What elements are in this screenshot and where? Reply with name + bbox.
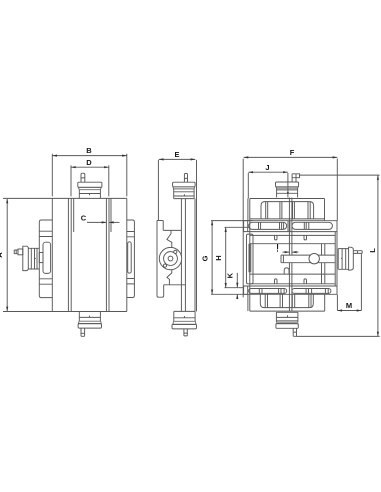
dim F extension lines xyxy=(243,159,337,298)
bottom knob cap xyxy=(172,324,197,329)
right crank bands xyxy=(338,249,348,270)
bottom knob dark band xyxy=(173,321,196,324)
svg-text:H: H xyxy=(214,255,223,260)
svg-text:D: D xyxy=(86,158,92,167)
band1 slot2 dividers xyxy=(304,222,309,229)
middle inner right verticals xyxy=(322,244,325,284)
top section outline xyxy=(250,199,325,312)
top section inner left edge line xyxy=(247,199,249,221)
top knob flange xyxy=(78,187,101,189)
slide short line left xyxy=(73,198,75,232)
bottom knob cap xyxy=(78,324,101,329)
section line above band2 xyxy=(250,283,335,285)
left plate bottom line xyxy=(164,284,186,286)
dim C line left with arrow xyxy=(87,221,106,223)
dim L extension bottom xyxy=(297,335,380,337)
left bracket nut boss xyxy=(39,253,43,263)
dim M right extension xyxy=(360,254,362,311)
band1 left cap divider xyxy=(247,221,249,232)
left bracket inner pocket xyxy=(43,242,51,273)
middle left rounded box xyxy=(247,234,254,284)
svg-text:A: A xyxy=(0,252,4,258)
left plate upper edge xyxy=(157,160,159,221)
top knob stem xyxy=(81,173,85,182)
tabs hanging below line xyxy=(275,235,307,240)
band1 screw crossing xyxy=(288,221,290,232)
svg-text:K: K xyxy=(226,272,235,278)
right cap bracket xyxy=(127,220,135,298)
dim M left extension xyxy=(336,295,338,311)
section line below band1 xyxy=(250,234,335,236)
dim D arrows xyxy=(71,166,109,168)
band2 outline xyxy=(244,286,337,294)
svg-text:B: B xyxy=(86,146,92,155)
handwheel mid circle xyxy=(164,252,178,266)
dim K line outside arrows xyxy=(236,273,238,298)
dim G line xyxy=(211,221,213,295)
bottom knob skirt xyxy=(174,311,195,321)
leadscrew round knob xyxy=(309,254,319,264)
slide vertical lines left pair xyxy=(68,198,71,311)
dim L extension top xyxy=(300,174,380,176)
left plate step xyxy=(157,220,163,222)
plate right edge with break zigzag bottom xyxy=(167,270,172,285)
left plate foot xyxy=(159,285,164,297)
right crank dial disc xyxy=(349,247,354,270)
dim D extension lines xyxy=(71,165,109,196)
dim I line left with arrow xyxy=(283,251,290,253)
tabs rising above line xyxy=(275,279,307,284)
left bracket plate xyxy=(39,220,52,298)
dim A line xyxy=(6,199,8,311)
dim E line xyxy=(159,158,196,160)
dim J right extension through knob xyxy=(287,173,289,198)
handwheel lobe top-right xyxy=(174,250,177,253)
left crank dial disc xyxy=(23,246,29,270)
dim L arrows xyxy=(377,175,379,336)
band2 slot1 dividers xyxy=(259,289,284,294)
arch over screw xyxy=(284,268,289,274)
middle section frame xyxy=(250,244,335,274)
top knob cap xyxy=(276,182,299,187)
top knob flange xyxy=(276,187,299,188)
top knob center mark arrow xyxy=(287,192,289,195)
svg-text:M: M xyxy=(346,301,352,310)
dim I leader xyxy=(277,250,279,253)
dim D line xyxy=(71,166,109,168)
svg-text:F: F xyxy=(290,148,295,157)
top knob stem xyxy=(184,173,187,182)
bottom section slot pairs xyxy=(265,294,311,307)
central screw pair lower xyxy=(289,263,292,311)
left crank rod xyxy=(14,250,18,254)
dim C line right with arrow xyxy=(109,221,120,223)
top section slide rounded rect xyxy=(261,202,314,219)
svg-text:G: G xyxy=(201,255,210,261)
handwheel outer circle xyxy=(159,247,181,269)
body outline with A extension lines xyxy=(3,198,127,311)
top section slot pairs xyxy=(266,202,311,219)
central screw pair upper xyxy=(289,198,292,256)
band1 slot1 dividers xyxy=(259,222,284,229)
bottom knob dark band xyxy=(78,321,101,323)
band2 slot1 xyxy=(249,289,287,294)
slide short line right xyxy=(110,198,112,232)
dim B arrows xyxy=(52,155,127,157)
band2 slot2 dividers xyxy=(306,289,328,294)
top knob cap xyxy=(173,182,196,187)
bottom section outline xyxy=(250,294,325,311)
bottom section inner left edge line xyxy=(247,294,249,311)
top knob skirt xyxy=(79,190,100,199)
bottom knob plate xyxy=(276,311,298,313)
left plate left edge xyxy=(157,221,159,298)
slide vertical lines right pair xyxy=(106,198,109,311)
bottom section slide rounded rect xyxy=(260,294,313,307)
top knob skirt xyxy=(277,188,298,197)
bottom knob cap xyxy=(276,324,298,329)
dim F line xyxy=(244,156,338,158)
band2 left cap divider xyxy=(247,286,249,294)
dim F arrows xyxy=(244,156,338,158)
svg-text:E: E xyxy=(174,150,179,159)
left crank bands xyxy=(28,248,39,269)
top knob stem flag xyxy=(296,174,300,178)
dim G arrows xyxy=(211,221,213,295)
dim B extension lines xyxy=(52,154,127,197)
dim H line xyxy=(225,227,227,287)
svg-text:C: C xyxy=(81,213,87,222)
dim M line xyxy=(337,310,361,312)
left crank hub xyxy=(18,249,23,255)
bottom knob dark band xyxy=(276,322,298,323)
handwheel hub hole xyxy=(168,256,173,261)
right crank rod xyxy=(353,251,362,254)
dim H arrows xyxy=(225,227,227,287)
bottom knob skirt xyxy=(79,312,100,322)
middle left inner pair xyxy=(249,244,251,273)
svg-text:L: L xyxy=(368,248,377,253)
left plate upper inner step xyxy=(163,221,181,231)
bottom knob stem xyxy=(184,329,187,336)
top knob skirt xyxy=(174,189,194,199)
bottom knob stem xyxy=(81,328,85,336)
dim J line xyxy=(248,171,287,173)
bottom knob stem xyxy=(293,328,296,336)
leadscrew bar xyxy=(281,255,335,263)
top knob flange xyxy=(173,187,195,189)
top knob stem xyxy=(292,174,296,182)
svg-text:I: I xyxy=(276,242,278,251)
middle section right edge xyxy=(335,221,337,295)
right bracket inner pocket xyxy=(128,242,132,273)
dim E arrows xyxy=(159,158,196,160)
band1 slot2 xyxy=(292,222,332,229)
dim J extension line left xyxy=(247,173,249,199)
dim M arrows xyxy=(337,309,361,311)
screw shaft xyxy=(181,199,185,312)
dim J arrows xyxy=(248,171,287,173)
plate right edge with break zigzag top xyxy=(167,230,172,247)
svg-text:J: J xyxy=(265,163,269,172)
dim A arrows xyxy=(6,199,8,312)
dim G extension lines xyxy=(211,221,253,295)
band1 outline xyxy=(244,221,337,232)
top knob cap xyxy=(78,182,102,187)
dim H extension lines xyxy=(225,227,251,287)
column back edge xyxy=(195,160,197,312)
band1 slot1 xyxy=(249,222,287,229)
handwheel lobe bottom-left xyxy=(163,264,166,267)
dim B line xyxy=(52,155,127,157)
dim I line right with arrow xyxy=(292,251,299,253)
dim K arrows xyxy=(236,283,238,299)
band2 slot2 xyxy=(292,289,331,294)
bottom knob skirt xyxy=(276,312,298,322)
dim L line xyxy=(377,175,379,336)
